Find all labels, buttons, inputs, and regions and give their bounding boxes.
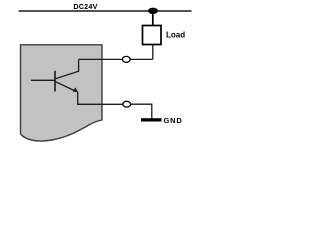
transistor Q1 base wire [31,79,55,81]
transistor Q1 emitter arrowhead [73,87,78,92]
transistor Q1 emitter line [56,82,77,92]
wire collector right to upper terminal [79,58,123,60]
terminal circle upper (output) [122,56,130,62]
wire DC24V top rail [19,10,192,12]
wire dot down to load [152,11,154,26]
wire load leg left to upper terminal [130,58,153,60]
svg-text:GND: GND [164,116,183,125]
wire emitter down and right to lower terminal [78,92,123,104]
svg-text:Load: Load [166,31,185,40]
transistor Q1 collector line [56,59,79,78]
output unit block (gray body with wavy bottom) [21,45,103,141]
ground bar (GND symbol) [141,118,162,121]
svg-text:DC24V: DC24V [73,2,97,11]
wire lower terminal right then down to ground [131,104,152,118]
load box [143,26,162,45]
terminal circle lower (common) [123,101,131,107]
wire load bottom down [152,45,154,60]
transistor Q1 base bar [54,71,56,92]
node junction dot on rail [148,8,158,14]
